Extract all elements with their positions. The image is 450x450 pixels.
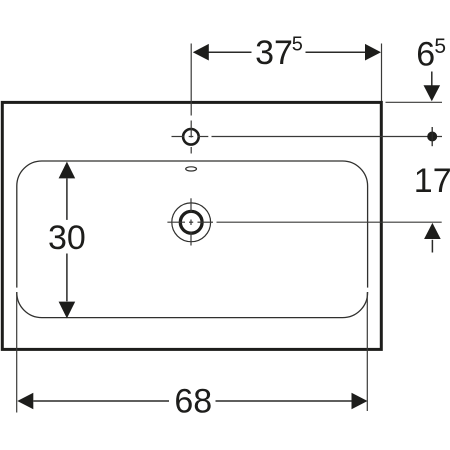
dimension line 68 xyxy=(33,400,351,402)
drain inner circle xyxy=(180,211,202,233)
gap in bowl left edge for extension line xyxy=(15,288,20,292)
arrow 37.5 right xyxy=(365,44,381,61)
arrow 68 right xyxy=(352,393,368,410)
arrow 68 left xyxy=(17,393,33,410)
arrow 17 up xyxy=(431,240,433,253)
svg-text:37: 37 xyxy=(255,34,293,72)
arrow 30 up xyxy=(59,162,76,179)
extension line 37.5 right xyxy=(381,44,383,102)
tap hole horizontal centerline xyxy=(172,136,443,138)
arrow 30 down xyxy=(59,302,76,319)
dimension dot at tap line xyxy=(427,132,437,142)
dimension line 30 xyxy=(66,178,68,301)
basin bowl inner outline xyxy=(17,161,368,318)
svg-text:5: 5 xyxy=(292,34,303,56)
washbasin outer outline xyxy=(2,102,381,349)
drain outer circle xyxy=(172,203,211,242)
svg-text:17: 17 xyxy=(414,162,450,200)
gap in bowl right edge for extension line xyxy=(365,288,370,292)
arrow 37.5 left xyxy=(193,44,209,61)
dimension line 37.5 xyxy=(207,51,366,53)
tap hole xyxy=(183,129,199,145)
tap hole vertical centerline / 37.5 left extension xyxy=(190,44,192,154)
tick through dot xyxy=(431,127,433,146)
drain horizontal centerline xyxy=(167,221,441,223)
top edge extension line xyxy=(386,101,443,103)
extension line 68 right xyxy=(366,292,368,411)
overflow slot xyxy=(186,167,197,171)
svg-text:5: 5 xyxy=(434,35,446,58)
drain vertical centerline xyxy=(190,198,192,245)
extension line 68 left xyxy=(16,292,18,412)
svg-text:30: 30 xyxy=(48,219,86,257)
svg-text:68: 68 xyxy=(174,382,212,420)
arrow 6.5 down xyxy=(431,72,433,86)
svg-text:6: 6 xyxy=(416,36,435,74)
